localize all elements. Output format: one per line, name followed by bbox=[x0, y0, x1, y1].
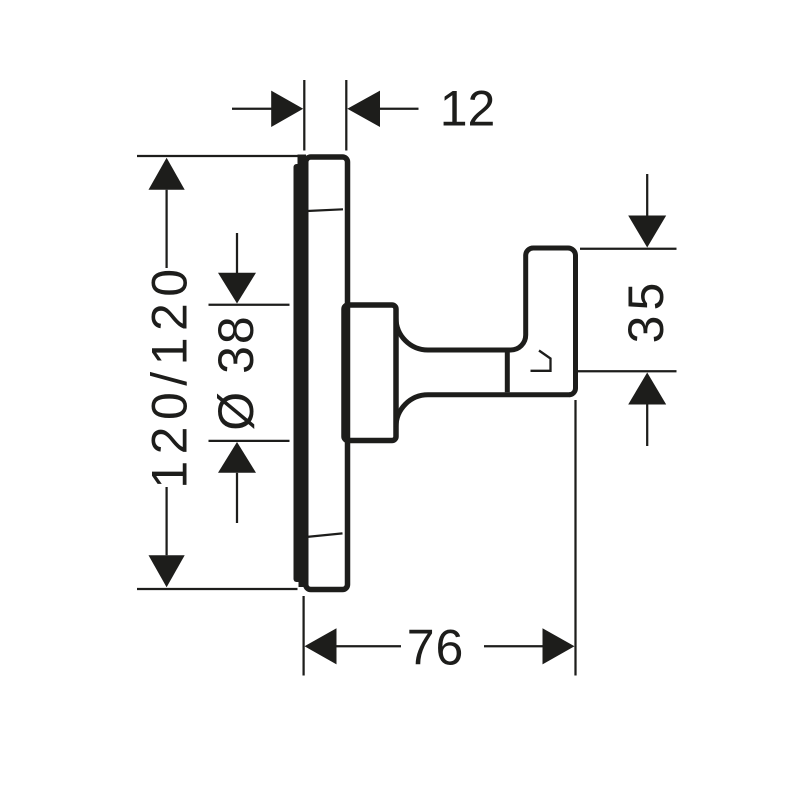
dimension 12: left arrow bbox=[271, 91, 303, 127]
plate seam line upper bbox=[307, 209, 343, 211]
dimension 35: lower tail line bbox=[646, 405, 648, 447]
dimension 76: left arrow bbox=[305, 628, 337, 664]
svg-text:12: 12 bbox=[440, 81, 496, 137]
dimension D38: upper extension line bbox=[209, 304, 290, 306]
dimension 120/120: bottom arrow bbox=[149, 555, 185, 587]
dimension 35: upper extension line bbox=[580, 248, 677, 250]
dimension 76: left line segment bbox=[337, 645, 402, 647]
svg-text:76: 76 bbox=[407, 619, 465, 675]
hook inner edge detail mark bbox=[531, 351, 551, 371]
dimension 12: right arrow bbox=[347, 91, 380, 127]
hook-neck junction line bbox=[505, 352, 510, 393]
taper top fillet and neck top edge bbox=[396, 318, 511, 350]
dimension 76: left extension line bbox=[302, 596, 304, 676]
dimension 35: upper tail line bbox=[646, 174, 648, 217]
svg-text:Ø 38: Ø 38 bbox=[208, 314, 264, 430]
taper bottom fillet bbox=[396, 395, 428, 427]
escutcheon base rectangle bbox=[344, 305, 396, 441]
wall plate mounting strip bbox=[294, 155, 307, 588]
svg-text:120/120: 120/120 bbox=[142, 262, 198, 488]
dimension 120/120: top extension line bbox=[137, 155, 298, 157]
svg-text:35: 35 bbox=[618, 278, 674, 344]
dimension 12: right tail line bbox=[380, 108, 419, 110]
dimension 120/120: top arrow bbox=[149, 158, 185, 190]
dimension 76: right arrow bbox=[543, 628, 575, 664]
dimension D38: upper arrow bbox=[218, 273, 256, 304]
dimension 35: lower extension line bbox=[578, 370, 677, 372]
dimension 120/120: lower line segment bbox=[165, 487, 167, 555]
dimension 120/120: upper line segment bbox=[165, 190, 167, 268]
plate seam line lower bbox=[306, 533, 343, 537]
dimension 12: left extension line bbox=[303, 80, 305, 151]
dimension D38: lower arrow bbox=[218, 442, 256, 473]
bottom edge of neck and hook underside bbox=[428, 392, 570, 397]
dimension 120/120: bottom extension line bbox=[137, 588, 298, 590]
hook outline bbox=[511, 248, 576, 395]
dimension D38: lower extension line bbox=[209, 440, 290, 442]
wall plate outline bbox=[306, 157, 348, 590]
dimension D38: upper tail line bbox=[236, 233, 238, 274]
dimension 12: right extension line bbox=[345, 80, 347, 151]
dimension 76: right line segment bbox=[484, 645, 543, 647]
dimension 35: lower arrow bbox=[628, 373, 666, 405]
dimension 12: left tail line bbox=[232, 108, 272, 110]
dimension 76: right extension line bbox=[574, 400, 576, 676]
dimension 35: upper arrow bbox=[628, 216, 666, 248]
dimension D38: lower tail line bbox=[236, 473, 238, 523]
